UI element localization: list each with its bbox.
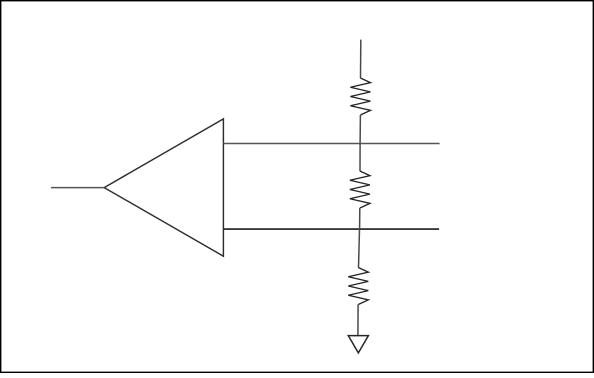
wire VCC stub <box>360 40 362 78</box>
wire R2 to bottom rail <box>359 208 361 229</box>
wire output top <box>223 143 439 145</box>
resistor R1 <box>350 78 370 115</box>
wire R1 to top rail <box>359 115 361 144</box>
op-amp U1 <box>104 119 223 256</box>
ground <box>348 336 368 353</box>
wire R3 to ground <box>357 305 359 336</box>
wire output bottom <box>223 228 439 230</box>
resistor R2 <box>350 171 370 208</box>
wire bottom rail to R3 <box>359 229 360 267</box>
resistor R3 <box>348 268 368 305</box>
wire top rail to R2 <box>359 144 361 172</box>
wire input <box>51 187 104 189</box>
